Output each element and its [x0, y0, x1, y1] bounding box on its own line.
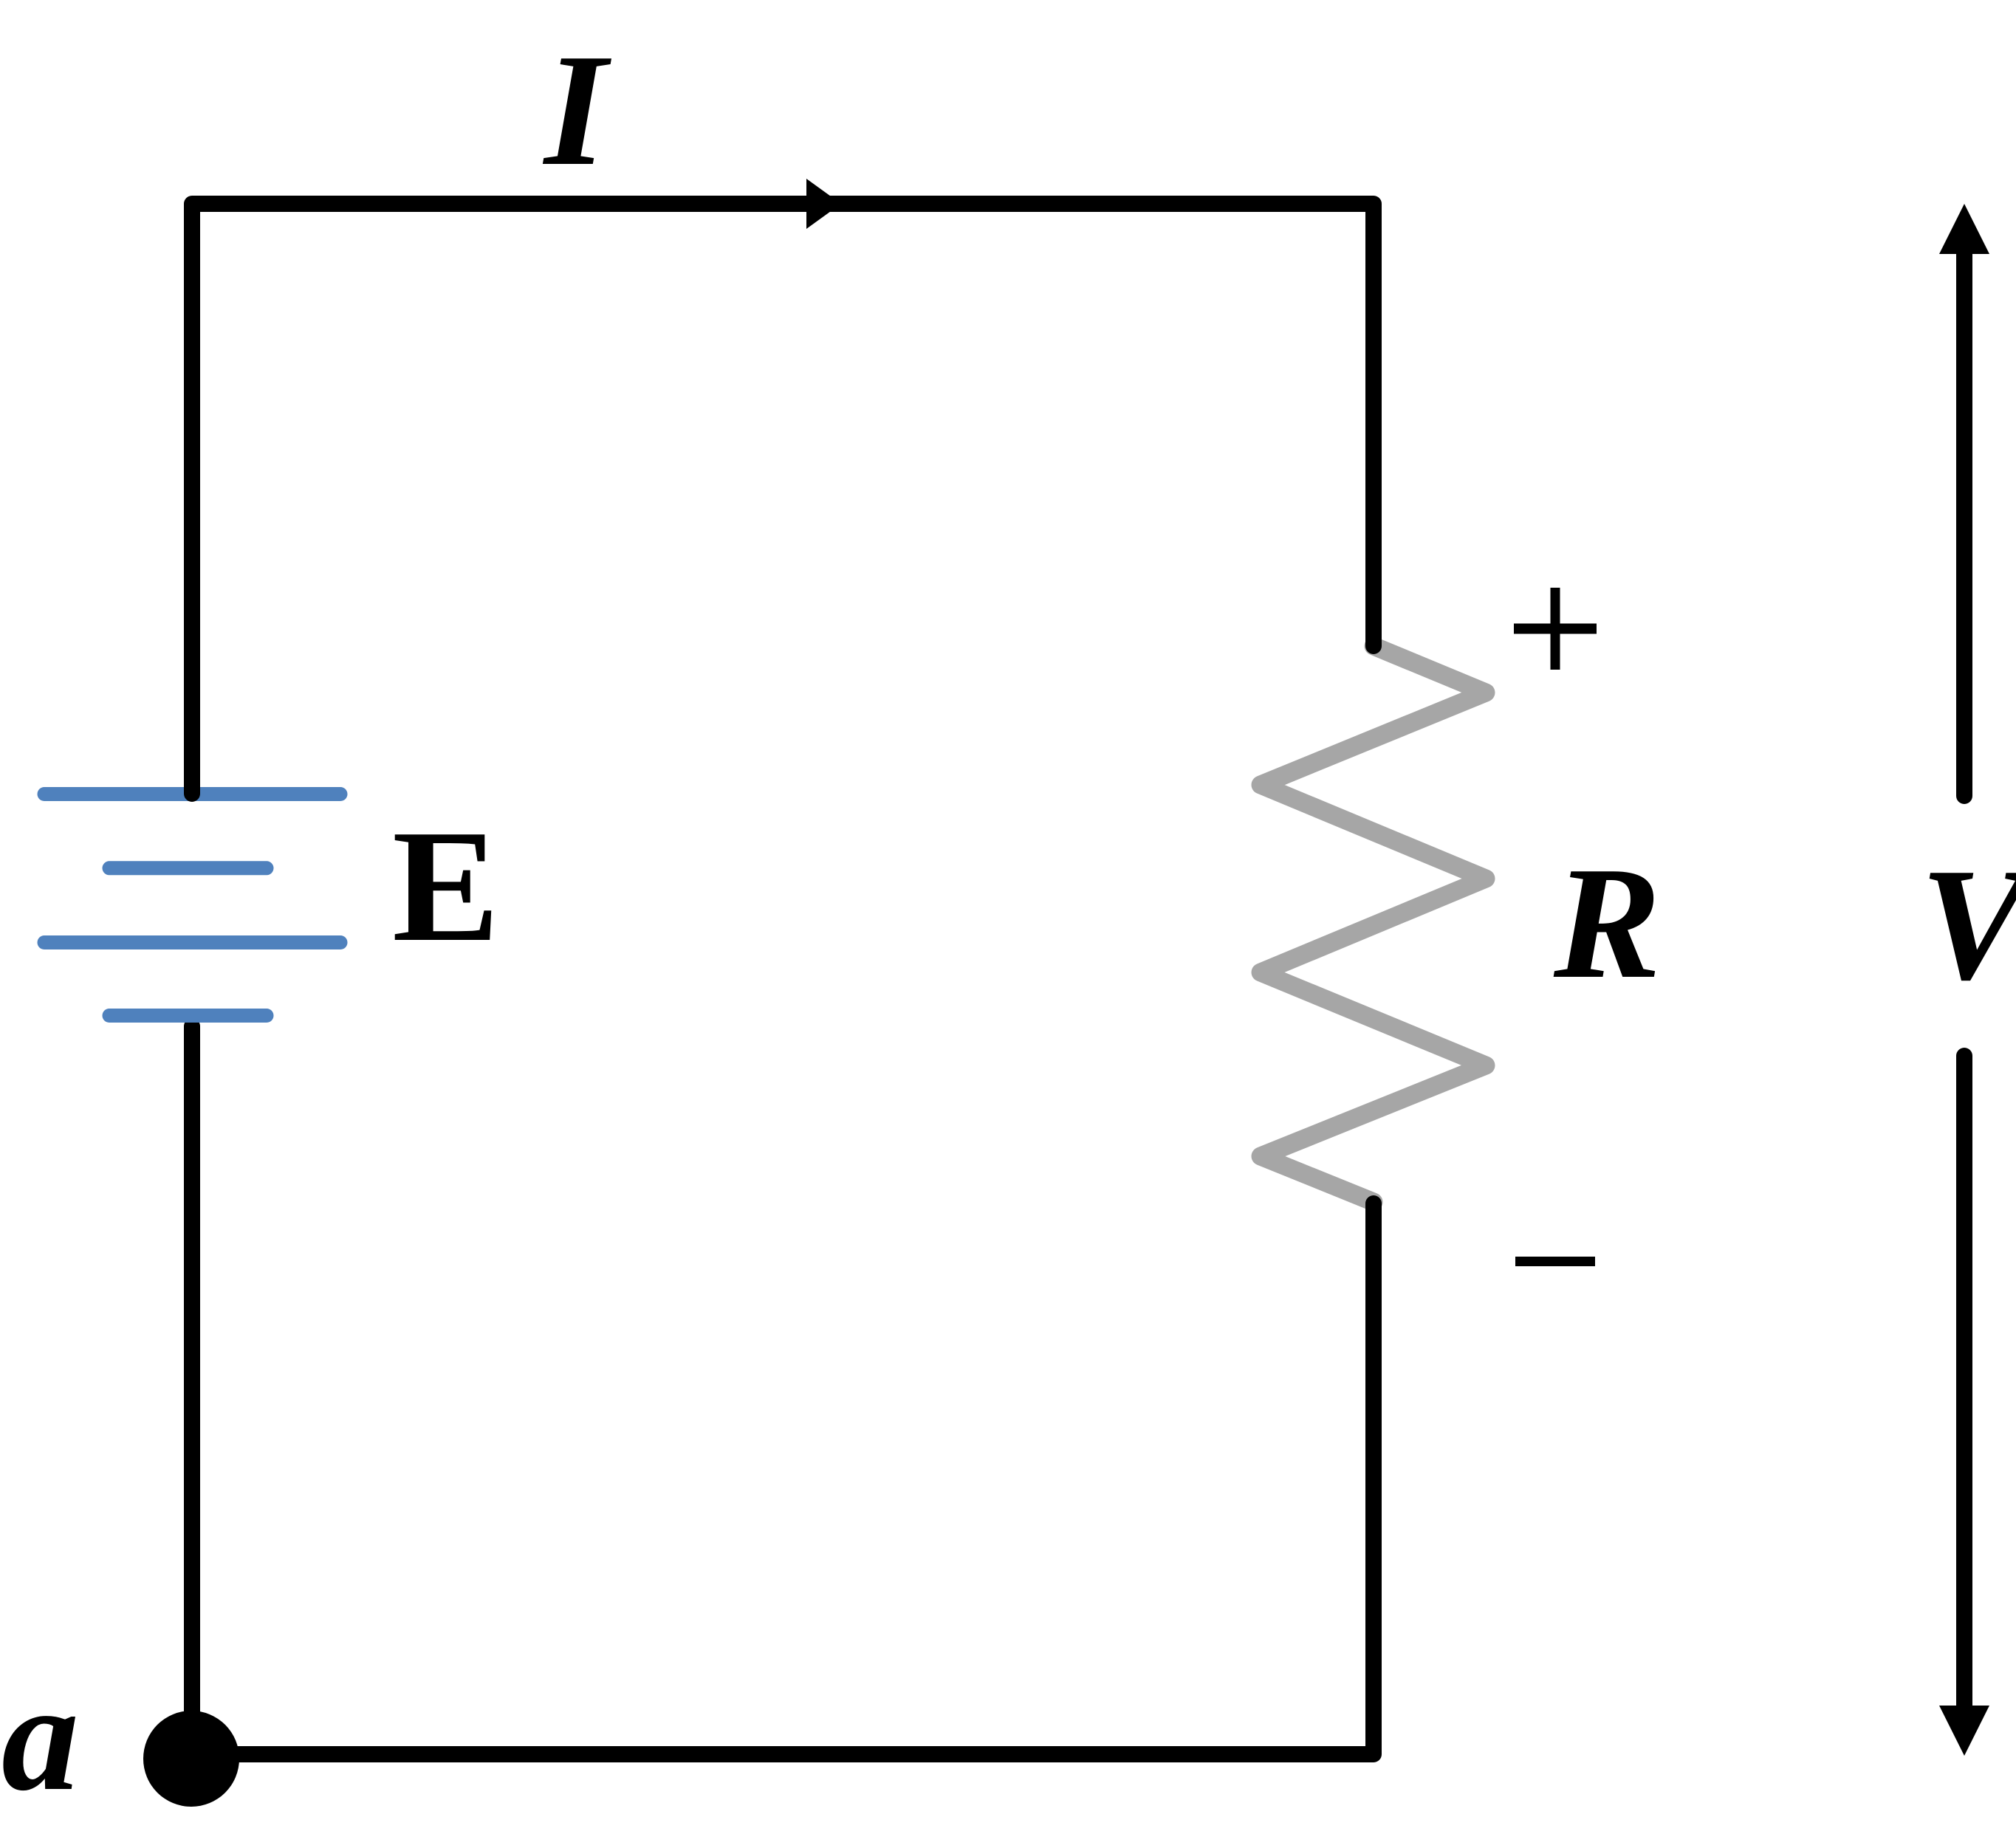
- svg-text:V: V: [1920, 836, 2016, 1014]
- svg-text:a: a: [1, 1652, 79, 1823]
- svg-text:E: E: [392, 797, 499, 975]
- svg-text:R: R: [1553, 834, 1661, 1012]
- svg-text:I: I: [542, 21, 612, 199]
